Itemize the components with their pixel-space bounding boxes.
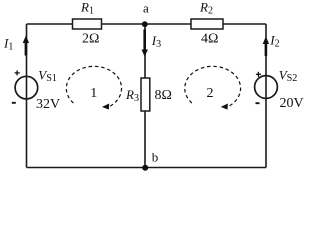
wire bottom rail xyxy=(27,167,267,169)
source VS1 circle xyxy=(15,76,38,99)
VS1 plus sign xyxy=(15,70,20,75)
svg-text:b: b xyxy=(152,149,159,164)
svg-text:20V: 20V xyxy=(280,96,304,111)
svg-text:2: 2 xyxy=(207,86,214,101)
VS1 minus sign xyxy=(12,102,16,104)
current arrow I2 (up, on right rail) xyxy=(263,36,269,56)
mesh loop 1 arrowhead xyxy=(102,104,109,110)
svg-text:32V: 32V xyxy=(36,97,60,112)
mesh loop 2 dashed arc xyxy=(185,66,241,107)
svg-text:2Ω: 2Ω xyxy=(82,32,99,47)
svg-text:4Ω: 4Ω xyxy=(201,32,218,47)
source VS2 circle xyxy=(255,76,278,99)
wire left rail xyxy=(26,24,28,168)
mesh loop 1 dashed arc xyxy=(66,66,121,107)
svg-text:1: 1 xyxy=(90,86,97,101)
VS2 plus sign xyxy=(256,72,261,77)
current arrow I3 (down, on middle branch) xyxy=(142,30,148,57)
wire middle branch a-b xyxy=(144,24,146,168)
node a junction dot xyxy=(142,21,148,27)
wire top (node: left rail to right rail through R1, a, R2) xyxy=(27,23,267,25)
node b junction dot xyxy=(142,165,148,171)
VS2 minus sign xyxy=(256,102,260,104)
resistor R2 body xyxy=(191,19,223,29)
svg-text:a: a xyxy=(143,1,149,16)
mesh loop 2 arrowhead xyxy=(221,104,228,110)
current arrow I1 (up, on left rail) xyxy=(23,36,29,56)
svg-text:8Ω: 8Ω xyxy=(155,88,172,103)
resistor R1 body xyxy=(73,19,102,29)
wire right rail xyxy=(265,24,267,168)
resistor R3 body xyxy=(141,78,150,111)
